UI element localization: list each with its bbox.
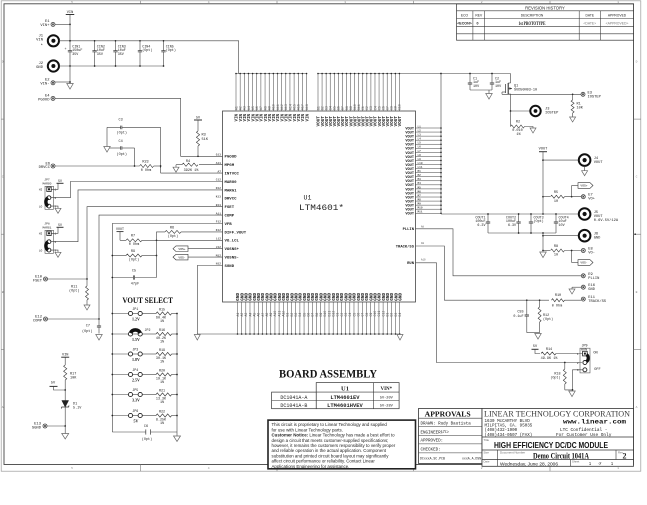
svg-text:R20: R20 <box>159 369 165 373</box>
turret E10 FSET <box>33 275 48 283</box>
svg-text:C7: C7 <box>86 325 90 329</box>
svg-text:(Opt): (Opt) <box>166 48 176 53</box>
customer notice box <box>268 420 416 469</box>
svg-text:L8: L8 <box>418 154 422 157</box>
svg-text:JP1: JP1 <box>132 307 138 311</box>
svg-text:JP5: JP5 <box>132 388 138 392</box>
svg-text:IOSTEP: IOSTEP <box>588 95 602 99</box>
turret E13 SGND <box>32 422 47 430</box>
capacitor CIN1 <box>64 40 82 67</box>
svg-text:M9: M9 <box>418 203 422 206</box>
resistor R18 (Opt) <box>550 363 566 390</box>
svg-text:0 Ohm: 0 Ohm <box>129 242 140 247</box>
svg-text:C3: C3 <box>119 119 123 123</box>
svg-text:R5: R5 <box>554 191 558 195</box>
U1 VOUT pins (right) with bus <box>405 73 441 217</box>
turret E16 GND <box>572 284 596 292</box>
svg-text:LTM4601EV: LTM4601EV <box>330 395 360 401</box>
turret E1 VIN+ <box>40 20 55 28</box>
svg-text:JP4: JP4 <box>132 368 138 372</box>
svg-text:R9: R9 <box>131 250 135 254</box>
wire VOUT rail <box>441 213 579 215</box>
svg-text:GND: GND <box>398 293 403 301</box>
svg-text:LO: LO <box>39 249 43 252</box>
net 5V (zener tap) <box>50 382 67 391</box>
svg-text:6.3V: 6.3V <box>477 224 486 228</box>
svg-text:35V: 35V <box>72 53 79 57</box>
revision history table <box>457 4 634 40</box>
svg-text:JP3: JP3 <box>132 348 138 352</box>
turret E4 PGOOD <box>38 94 55 102</box>
svg-text:(Opt): (Opt) <box>543 317 553 322</box>
svg-text:VOSNS+: VOSNS+ <box>225 248 240 252</box>
svg-text:5: 5 <box>71 467 73 470</box>
jumper JP9 RUN <box>577 344 601 373</box>
title block <box>482 408 634 467</box>
svg-text:Document Number: Document Number <box>500 450 525 454</box>
svg-text:6.3V: 6.3V <box>508 224 517 228</box>
svg-text:(Opt): (Opt) <box>142 48 152 53</box>
svg-text:10K: 10K <box>577 107 584 111</box>
svg-text:TRACK/SS: TRACK/SS <box>588 299 606 304</box>
zener diode D1 5.1V <box>61 390 82 427</box>
ground (C3/C4) <box>104 127 111 152</box>
svg-text:R22: R22 <box>159 410 165 414</box>
svg-text:1st PROTOTYPE: 1st PROTOTYPE <box>519 22 546 27</box>
turret E3 IOSTEP <box>581 91 602 99</box>
ground (U1 bottom right) <box>397 335 403 341</box>
resistor R2 0.010 1% <box>511 111 534 137</box>
svg-text:R15: R15 <box>159 308 165 312</box>
capacitor COUT3 <box>529 213 544 233</box>
svg-text:+: + <box>64 48 66 52</box>
U1 left pin labels <box>216 154 247 269</box>
svg-text:VIN+: VIN+ <box>40 24 50 28</box>
svg-text:VO+: VO+ <box>588 198 595 202</box>
svg-text:A10: A10 <box>421 259 426 262</box>
svg-text:VO_LCL: VO_LCL <box>225 240 240 244</box>
svg-text:DC1041A-B: DC1041A-B <box>280 403 307 409</box>
svg-text:GND: GND <box>36 66 44 70</box>
capacitor COUT2 <box>506 213 521 233</box>
svg-text:COMP: COMP <box>225 215 235 219</box>
svg-text:DC1041A-A: DC1041A-A <box>280 395 307 401</box>
ground (U1 bottom left) <box>194 335 200 341</box>
svg-text:(Opt): (Opt) <box>142 437 153 442</box>
wire COUT ground bus <box>488 232 556 251</box>
svg-text:0 Ohm: 0 Ohm <box>552 304 563 309</box>
svg-text:B: B <box>2 291 4 294</box>
svg-text:C10: C10 <box>398 104 402 110</box>
svg-text:PLLIN: PLLIN <box>588 277 599 281</box>
svg-text:R10: R10 <box>555 294 561 298</box>
svg-text:1.2V: 1.2V <box>132 317 140 322</box>
U1 VIN pins (top) with bus <box>234 73 310 122</box>
svg-text:1: 1 <box>617 467 619 470</box>
ground (R11) <box>84 305 90 310</box>
svg-text:L6: L6 <box>418 146 422 149</box>
svg-text:of: of <box>599 462 602 466</box>
svg-text:1.8V: 1.8V <box>132 357 140 362</box>
jack J6 GND <box>543 230 601 242</box>
wire JP8 pin2 to MARG1 <box>51 190 223 242</box>
svg-text:(408)434-0507 (FAX): (408)434-0507 (FAX) <box>485 433 533 438</box>
jack J2 GND <box>36 60 59 71</box>
svg-text:M7: M7 <box>418 194 422 197</box>
wire JP7 pin2 to MARG0 <box>51 182 223 198</box>
jumper JP5 (3.3V) <box>111 388 142 402</box>
svg-text:M6: M6 <box>418 190 422 193</box>
ground (C7) <box>96 335 103 341</box>
svg-text:DCxxxA.SC.PCB: DCxxxA.SC.PCB <box>420 457 445 461</box>
capacitor C3 (Opt) <box>107 119 161 169</box>
svg-text:COMP: COMP <box>33 319 43 323</box>
svg-text:Applications Engineering for a: Applications Engineering for assistance. <box>272 464 350 469</box>
svg-text:L4: L4 <box>418 138 422 141</box>
svg-text:VOSNS-: VOSNS- <box>225 257 239 261</box>
svg-text:R19: R19 <box>159 349 165 353</box>
approvals block <box>419 409 483 464</box>
svg-text:D: D <box>636 61 638 64</box>
transistor Q1 SUD50N03-10 <box>502 74 537 98</box>
wire GND rail <box>59 65 164 67</box>
svg-text:10: 10 <box>554 254 558 258</box>
svg-text:LTCe: LTCe <box>440 430 449 434</box>
svg-text:LTM4601*: LTM4601* <box>299 203 344 213</box>
svg-text:C: C <box>636 176 638 179</box>
svg-text:51K: 51K <box>202 138 209 142</box>
wire E13 / ground <box>47 425 66 433</box>
ground (E16) <box>569 289 575 294</box>
svg-text:For Customer Use Only: For Customer Use Only <box>556 433 612 438</box>
svg-text:ENGINEER:: ENGINEER: <box>421 431 444 435</box>
svg-text:<APPROVED>: <APPROVED> <box>606 22 629 26</box>
svg-text:SUD50N03-10: SUD50N03-10 <box>514 89 537 93</box>
capacitor CIN5 <box>161 40 176 67</box>
svg-text:B: B <box>636 291 638 294</box>
svg-text:HI: HI <box>39 189 43 192</box>
svg-text:(408)432-1900: (408)432-1900 <box>485 428 518 433</box>
svg-text:JP7: JP7 <box>44 179 50 182</box>
resistor R11 (Opt) <box>69 279 89 305</box>
svg-text:ECO: ECO <box>461 14 469 18</box>
svg-text:1.5V: 1.5V <box>132 337 140 342</box>
net flag VOS- (sense) <box>572 251 593 266</box>
svg-text:VIN-: VIN- <box>40 83 49 87</box>
ground (C1/C2) <box>470 90 492 99</box>
svg-text:(Opt): (Opt) <box>117 152 128 157</box>
svg-text:10: 10 <box>554 200 558 204</box>
op-amp U1 LTM4601 (module body) <box>223 111 416 302</box>
svg-text:HIGH EFFICIENCY DC/DC MODULE: HIGH EFFICIENCY DC/DC MODULE <box>494 441 608 450</box>
svg-text:4: 4 <box>208 467 210 470</box>
svg-text:R6: R6 <box>170 227 174 231</box>
svg-text:M11: M11 <box>418 211 423 214</box>
svg-text:3.3V: 3.3V <box>132 398 140 403</box>
ground (CSS/R12) <box>535 334 542 340</box>
svg-text:Size: Size <box>484 450 490 454</box>
svg-text:(Opt): (Opt) <box>129 257 140 262</box>
svg-text:GND: GND <box>588 288 595 292</box>
svg-text:0: 0 <box>477 22 479 26</box>
svg-text:VOS-: VOS- <box>580 262 587 265</box>
svg-text:5.1V: 5.1V <box>73 407 82 411</box>
svg-text:47pF: 47pF <box>131 282 139 286</box>
capacitor C5 47pF <box>111 256 156 287</box>
resistor R12 (Opt) <box>527 300 553 332</box>
wire RUN (A10) to JP9 <box>407 259 582 364</box>
svg-text:FSET: FSET <box>33 279 43 283</box>
svg-text:D: D <box>2 61 4 64</box>
wire VIN/VOUT top bus to Q1 <box>441 73 511 75</box>
svg-text:RUN: RUN <box>581 348 587 352</box>
svg-text:DIFF_VOUT: DIFF_VOUT <box>225 231 247 235</box>
net VOUT (feedback tap) <box>116 227 124 241</box>
svg-text:MARG1: MARG1 <box>42 227 51 230</box>
svg-text:*: * <box>40 44 43 49</box>
svg-text:R14: R14 <box>546 348 552 352</box>
wire E4 to PGOOD pin <box>55 98 223 156</box>
capacitor C2 1uF 10V <box>490 73 502 90</box>
svg-text:VOUT: VOUT <box>398 116 403 127</box>
svg-text:K13: K13 <box>216 196 221 199</box>
svg-text:(Opt): (Opt) <box>82 329 93 334</box>
svg-text:L10: L10 <box>418 162 423 165</box>
svg-text:Title: Title <box>484 438 490 442</box>
capacitor COUT4 <box>554 213 569 233</box>
resistor R5 10 <box>543 191 581 204</box>
BOARD ASSEMBLY table <box>272 383 400 410</box>
svg-text:RUN: RUN <box>407 262 415 266</box>
svg-text:Sheet: Sheet <box>572 460 580 464</box>
jumper JP3 (1.8V) <box>111 348 142 362</box>
svg-text:49.9K 1%: 49.9K 1% <box>541 357 559 361</box>
svg-text:SGND: SGND <box>225 265 235 269</box>
svg-text:C4: C4 <box>119 140 123 144</box>
svg-text:A8: A8 <box>421 226 425 229</box>
net VIN (bias) <box>61 353 69 365</box>
jumper JP1 (1.2V) <box>111 307 142 321</box>
wire Q1 gate to E3 <box>502 93 581 95</box>
svg-text:35V: 35V <box>97 53 104 57</box>
svg-text:10K: 10K <box>70 377 77 381</box>
turret E2 VIN- <box>40 79 55 87</box>
ground (R2/J3) <box>530 128 536 133</box>
resistor R19 30.1K 1% <box>142 349 178 365</box>
capacitor CIN3 <box>113 40 126 67</box>
svg-text:VOUT: VOUT <box>405 213 414 217</box>
svg-text:A: A <box>2 406 4 409</box>
svg-text:DESCRIPTION: DESCRIPTION <box>521 14 544 18</box>
wire E12 to COMP pin <box>48 215 223 320</box>
jumper JP7 MARG0 <box>39 179 64 214</box>
net flag VOSNS+ <box>173 246 223 252</box>
svg-text:0.1uF: 0.1uF <box>513 315 523 319</box>
svg-text:APPROVALS: APPROVALS <box>425 409 471 418</box>
capacitor COUT1 <box>475 213 490 233</box>
capacitor CIN4 <box>138 40 153 67</box>
resistor R23 0 Ohm <box>55 161 223 174</box>
svg-text:GND: GND <box>594 237 601 241</box>
svg-text:R21: R21 <box>159 389 165 393</box>
svg-text:C: C <box>2 176 4 179</box>
svg-text:MPGM: MPGM <box>225 164 235 168</box>
net flag VOS+ (sense) <box>572 183 593 197</box>
svg-text:www.linear.com: www.linear.com <box>563 419 626 426</box>
wire VFB (F12) <box>112 224 222 306</box>
svg-text:R7: R7 <box>131 235 135 239</box>
svg-text:U1: U1 <box>304 195 312 202</box>
svg-text:DATE: DATE <box>586 14 595 18</box>
svg-text:CHECKED:: CHECKED: <box>421 449 441 453</box>
svg-text:xxxA.A.DSN: xxxA.A.DSN <box>462 457 481 461</box>
net VOUT (output) <box>539 148 548 215</box>
svg-text:Demo Circuit 1041A: Demo Circuit 1041A <box>533 451 589 460</box>
svg-text:A18: A18 <box>305 104 309 110</box>
svg-text:5V-28V: 5V-28V <box>380 405 394 409</box>
svg-text:L7: L7 <box>418 150 422 153</box>
svg-text:VOUT: VOUT <box>539 148 548 152</box>
svg-text:MILPITAS, CA. 95035: MILPITAS, CA. 95035 <box>485 425 533 429</box>
svg-text:0.6V-5V/12A: 0.6V-5V/12A <box>594 218 619 223</box>
capacitor C6 (Opt) <box>142 425 153 442</box>
svg-text:G13: G13 <box>216 154 221 157</box>
svg-text:DRAWN: Rudy Bautista: DRAWN: Rudy Bautista <box>421 421 472 426</box>
wire E1 to VIN rail <box>55 23 70 25</box>
svg-text:LO: LO <box>39 205 43 208</box>
svg-text:R16: R16 <box>159 329 165 333</box>
svg-text:C5: C5 <box>132 270 136 274</box>
svg-text:A: A <box>636 406 638 409</box>
svg-text:MARG0: MARG0 <box>42 183 51 186</box>
U1 VOUT pins (top) with bus <box>316 73 441 127</box>
turret E7 VO+ <box>581 194 595 202</box>
svg-text:TRACK/SS: TRACK/SS <box>396 244 415 249</box>
svg-text:OFF: OFF <box>594 368 600 372</box>
svg-text:Date: Date <box>484 460 490 464</box>
svg-text:ON: ON <box>593 352 597 356</box>
svg-text:INTVCC: INTVCC <box>225 173 240 177</box>
svg-text:D4: D4 <box>398 313 402 317</box>
svg-text:M2: M2 <box>418 174 422 177</box>
svg-text:VO-: VO- <box>588 252 595 256</box>
svg-text:<DATE>: <DATE> <box>583 22 596 26</box>
svg-text:10V: 10V <box>559 224 566 228</box>
capacitor C7 (Opt) <box>82 319 101 334</box>
jack J1 VIN <box>36 35 59 50</box>
svg-text:R23: R23 <box>142 161 148 165</box>
ground (J4 shield) <box>582 166 588 176</box>
net flag VOSNS- <box>173 254 223 260</box>
svg-text:JP6: JP6 <box>132 409 138 413</box>
svg-text:35V: 35V <box>118 53 125 57</box>
svg-text:4: 4 <box>208 1 210 4</box>
svg-text:M8: M8 <box>418 198 422 201</box>
resistor R21 13.3K 1% <box>142 389 178 405</box>
svg-text:L11: L11 <box>418 166 423 169</box>
svg-text:(Opt): (Opt) <box>69 289 80 294</box>
svg-text:PGOOD: PGOOD <box>38 98 50 102</box>
U1 GND pins (bottom) with ground bus <box>197 293 403 335</box>
jumper JP4 (2.5V) <box>111 368 142 382</box>
ground (R18/JP9) <box>569 391 576 397</box>
svg-text:APPROVED:: APPROVED: <box>421 440 444 444</box>
svg-text:(Opt): (Opt) <box>534 219 544 224</box>
svg-text:0 Ohm: 0 Ohm <box>141 168 152 173</box>
jack J4 VOUT <box>543 154 603 166</box>
ground (input) <box>67 84 74 90</box>
svg-text:DRVCC: DRVCC <box>39 166 51 170</box>
svg-text:392K 1%: 392K 1% <box>184 169 200 173</box>
svg-text:Wednesday, June 28, 2006: Wednesday, June 28, 2006 <box>500 461 558 467</box>
turret E6 DRVCC <box>39 162 55 170</box>
svg-text:VOS-: VOS- <box>178 256 185 259</box>
resistor R16 40.2K 1% <box>142 329 178 345</box>
svg-text:5V-20V: 5V-20V <box>380 397 394 401</box>
svg-text:5V: 5V <box>58 179 62 183</box>
jack J3 IOSTEP <box>510 97 559 116</box>
capacitor CSS 0.1uF <box>513 300 529 332</box>
svg-text:PLLIN: PLLIN <box>403 228 415 232</box>
svg-text:VIN: VIN <box>36 39 43 43</box>
ground (COUT/R8) <box>540 252 547 258</box>
svg-text:L2: L2 <box>418 129 422 132</box>
svg-text:L1: L1 <box>418 125 422 128</box>
svg-text:BOARD ASSEMBLY: BOARD ASSEMBLY <box>279 367 377 381</box>
VOUT SELECT network frame (left/right buses) <box>112 305 177 432</box>
turret E11 TRACK/SS <box>581 296 606 304</box>
svg-text:R4: R4 <box>186 160 190 164</box>
jack J5 VOUT <box>579 208 619 223</box>
resistor R15 60.4K 1% <box>142 308 178 324</box>
svg-text:M1: M1 <box>418 170 422 173</box>
svg-text:C6: C6 <box>144 425 148 429</box>
ground (E13/D1) <box>62 434 69 440</box>
wire VIN top rail <box>59 41 239 74</box>
svg-text:M5: M5 <box>418 186 422 189</box>
resistor R1 10K <box>571 94 584 117</box>
svg-text:(Opt): (Opt) <box>168 234 179 239</box>
wire JP9 pin3 to ground <box>565 370 583 391</box>
svg-text:LINEAR TECHNOLOGY CORPORATION: LINEAR TECHNOLOGY CORPORATION <box>484 408 631 418</box>
svg-text:L3: L3 <box>418 134 422 137</box>
resistor R17 10K <box>64 365 78 390</box>
svg-text:U1: U1 <box>341 385 349 392</box>
net VIN (input power flag) <box>66 11 75 42</box>
svg-text:VOUT SELECT: VOUT SELECT <box>122 296 173 305</box>
resistor R10 0 Ohm <box>552 294 582 308</box>
resistor R22 8.25K 1% <box>142 410 178 426</box>
svg-text:IOSTEP: IOSTEP <box>545 112 559 116</box>
svg-text:REV: REV <box>475 14 483 18</box>
wire E10 to FSET pin <box>48 207 223 280</box>
wire SGND (H12) to ground bus <box>197 266 222 335</box>
resistor R7 0 Ohm <box>120 235 223 247</box>
resistor R8 10 <box>543 245 581 258</box>
svg-text:MARG0: MARG0 <box>225 181 238 185</box>
resistor R14 49.9K 1% with 5V <box>532 345 583 361</box>
svg-text:(Opt): (Opt) <box>117 131 128 136</box>
svg-text:R8: R8 <box>554 245 558 249</box>
turret E9 PLLIN <box>581 273 599 281</box>
svg-text:1630 McCARTHY BLVD: 1630 McCARTHY BLVD <box>485 420 531 424</box>
svg-text:FSET: FSET <box>225 206 235 210</box>
svg-text:2: 2 <box>623 452 627 461</box>
ground (R1) <box>570 117 576 122</box>
svg-text:SGND: SGND <box>32 426 42 430</box>
turret E8 VO- <box>581 248 595 256</box>
svg-text:2.5V: 2.5V <box>132 378 140 383</box>
